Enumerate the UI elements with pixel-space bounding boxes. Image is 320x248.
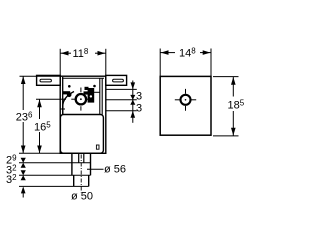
bottom outside arrow at 186.4 bbox=[21, 186, 26, 193]
dim 3/3 vertical line bbox=[132, 81, 134, 90]
trap circle (siphon) bbox=[76, 94, 86, 104]
outside arrow below line3 bbox=[131, 111, 136, 118]
right outlet white dot bbox=[90, 95, 92, 97]
screw dot right bbox=[93, 85, 96, 88]
dim 14.8 extension lines bbox=[159, 49, 161, 77]
reference line: Ø56 end (3.2) bbox=[19, 174, 91, 176]
right wing slot bbox=[113, 79, 124, 82]
leader line Ø56 bbox=[87, 168, 104, 170]
svg-text:32: 32 bbox=[6, 173, 17, 186]
trap crosshair ticks bbox=[71, 88, 91, 111]
spigot upper section (Ø56) bbox=[71, 153, 73, 175]
spigot inner tube lines bbox=[78, 153, 80, 162]
svg-text:ø 56: ø 56 bbox=[104, 164, 126, 176]
dim 11.8 arrowheads bbox=[61, 51, 69, 56]
right wing bracket bbox=[106, 75, 127, 85]
left view: inner right wall lines bbox=[99, 78, 101, 115]
right view crosshair ticks bbox=[175, 89, 196, 111]
svg-text:185: 185 bbox=[228, 98, 245, 111]
left view: main frame box bbox=[60, 76, 106, 153]
dimension line 23.6 bbox=[22, 76, 24, 110]
arrowheads 16.5 bbox=[37, 99, 42, 107]
right view: protection box bbox=[160, 76, 211, 135]
dim 11.8 extension lines bbox=[59, 49, 61, 76]
right side reference line 3 bbox=[106, 110, 137, 112]
chain arrows at 162.7 bbox=[21, 158, 26, 168]
svg-text:ø 50: ø 50 bbox=[71, 191, 93, 203]
chain arrows at 175.3 bbox=[21, 170, 26, 180]
screw dot left bbox=[68, 85, 71, 88]
right view centre dot bbox=[185, 99, 187, 101]
line from outlet to right wall bbox=[94, 91, 100, 93]
dim 14.8 line bbox=[160, 52, 175, 54]
right side reference line 1 bbox=[106, 88, 137, 90]
dim 18.5 arrowheads bbox=[231, 77, 236, 85]
svg-text:3: 3 bbox=[136, 91, 142, 103]
dim 11.8 line bbox=[60, 52, 71, 54]
left view: inner top line bbox=[62, 77, 104, 79]
reference line: spigot step (2.9) bbox=[19, 162, 91, 164]
svg-text:148: 148 bbox=[179, 46, 196, 59]
trap bowl arc bbox=[63, 92, 74, 115]
trap center dot bbox=[80, 98, 82, 100]
pipe centerline bbox=[80, 155, 82, 193]
interior line at circle centre to left wall bbox=[60, 98, 66, 100]
svg-text:118: 118 bbox=[73, 47, 89, 60]
outside arrow above line1 bbox=[131, 82, 136, 89]
small interior rect bottom right bbox=[96, 145, 99, 149]
svg-text:165: 165 bbox=[34, 120, 51, 133]
dimension line 16.5 bbox=[39, 99, 41, 119]
reference line: trap centre (16.5 datum) bbox=[36, 98, 60, 100]
reference line: box top (23.6 datum) bbox=[20, 75, 61, 77]
arrowheads 23.6 bbox=[21, 76, 26, 84]
left clamp assembly bbox=[63, 91, 72, 97]
left view: inner left wall bbox=[62, 77, 64, 115]
dim 18.5 extension lines bbox=[213, 76, 239, 78]
dim 14.8 arrowheads bbox=[161, 50, 169, 55]
reference line: box bottom bbox=[19, 152, 72, 154]
right view crosshair circle bbox=[181, 95, 191, 105]
interior short line lower left bbox=[60, 108, 65, 110]
left wing bracket bbox=[37, 75, 61, 85]
right side reference line 2 bbox=[106, 99, 137, 101]
left wing slot bbox=[40, 79, 51, 82]
dim 18.5 line bbox=[232, 77, 234, 97]
svg-text:236: 236 bbox=[16, 110, 33, 123]
svg-text:3: 3 bbox=[136, 103, 142, 115]
reference line: pipe end (3.2) bbox=[19, 185, 89, 187]
lower rounded housing bbox=[60, 115, 103, 154]
spigot lower pipe (Ø50) bbox=[73, 175, 75, 186]
right outlet assembly bbox=[84, 87, 95, 103]
chain arrows at line2 bbox=[130, 95, 135, 105]
